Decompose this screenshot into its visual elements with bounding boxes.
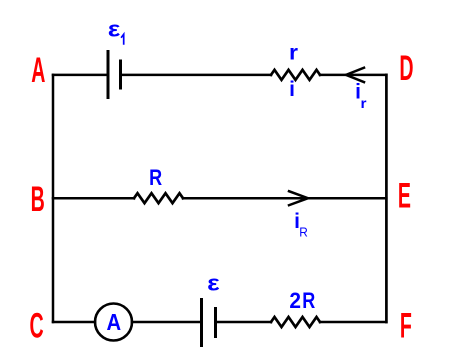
- svg-text:R: R: [149, 166, 162, 190]
- svg-text:A: A: [31, 51, 45, 90]
- svg-text:2: 2: [289, 289, 301, 314]
- svg-text:ε: ε: [207, 272, 220, 296]
- svg-text:r: r: [289, 40, 298, 64]
- svg-text:F: F: [400, 307, 412, 346]
- svg-text:ε: ε: [108, 17, 121, 41]
- svg-text:R: R: [302, 289, 315, 313]
- svg-text:R: R: [299, 225, 308, 239]
- svg-text:D: D: [399, 49, 413, 88]
- svg-text:E: E: [398, 176, 411, 215]
- svg-text:A: A: [106, 309, 121, 336]
- svg-text:C: C: [30, 307, 44, 346]
- svg-text:i: i: [289, 78, 295, 101]
- svg-text:B: B: [31, 180, 45, 219]
- svg-text:r: r: [360, 96, 366, 111]
